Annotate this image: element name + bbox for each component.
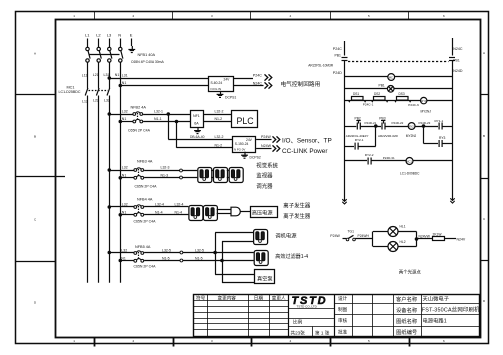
svg-text:L32-4: L32-4	[155, 203, 164, 207]
svg-text:D: D	[483, 299, 486, 303]
svg-text:DS3: DS3	[399, 92, 405, 96]
svg-text:PB1: PB1	[379, 84, 385, 88]
svg-text:4: 4	[290, 339, 292, 343]
svg-text:批准: 批准	[338, 328, 348, 335]
svg-text:HL2: HL2	[400, 240, 406, 244]
svg-text:PB3: PB3	[379, 117, 385, 121]
svg-text:5: 5	[368, 14, 370, 18]
svg-text:C65N 2P C4A: C65N 2P C4A	[134, 220, 157, 224]
svg-text:DS2: DS2	[374, 92, 380, 96]
svg-text:N1-4: N1-4	[175, 210, 183, 214]
svg-text:1: 1	[73, 339, 75, 343]
svg-text:RY3: RY3	[439, 136, 446, 140]
svg-text:第 1 张: 第 1 张	[315, 329, 330, 336]
svg-text:24V: 24V	[246, 138, 253, 142]
svg-text:C65N 2P C4A: C65N 2P C4A	[135, 185, 158, 189]
svg-text:24V: 24V	[224, 77, 231, 81]
svg-text:DCPS2: DCPS2	[250, 156, 261, 160]
svg-text:CC-LINK Power: CC-LINK Power	[282, 148, 328, 155]
svg-text:L12: L12	[82, 100, 88, 104]
svg-text:RY2-2: RY2-2	[365, 153, 374, 157]
svg-text:监视器: 监视器	[256, 172, 273, 180]
svg-text:E: E	[130, 33, 133, 38]
svg-text:D: D	[34, 301, 37, 305]
svg-text:TSTD CO.,LTD: TSTD CO.,LTD	[297, 305, 318, 309]
svg-text:图纸名称: 图纸名称	[396, 317, 418, 325]
svg-text:P24C-1: P24C-1	[363, 103, 374, 107]
svg-text:DB-6A-40: DB-6A-40	[190, 135, 205, 139]
svg-text:N24V: N24V	[457, 238, 466, 242]
svg-text:LC1-D09BDC: LC1-D09BDC	[400, 172, 420, 176]
svg-text:调机电源: 调机电源	[275, 232, 297, 240]
svg-text:P24C: P24C	[333, 47, 342, 51]
svg-text:共23张: 共23张	[291, 329, 306, 336]
svg-text:3: 3	[211, 14, 213, 18]
svg-text:B: B	[483, 134, 485, 138]
svg-text:P24D-31: P24D-31	[383, 156, 395, 160]
svg-text:N24C: N24C	[453, 47, 463, 51]
svg-text:6A: 6A	[194, 122, 199, 126]
svg-text:离子发生器: 离子发生器	[283, 212, 311, 220]
svg-text:L32-5: L32-5	[195, 249, 204, 253]
svg-text:NFB3 4A: NFB3 4A	[137, 160, 153, 164]
svg-text:S-60-24: S-60-24	[211, 81, 223, 85]
svg-text:I/O、Sensor、TP: I/O、Sensor、TP	[282, 137, 332, 144]
svg-text:电源电路1: 电源电路1	[423, 317, 447, 325]
svg-text:电气控制回路用: 电气控制回路用	[281, 80, 321, 88]
svg-text:L32-2: L32-2	[215, 135, 224, 139]
svg-text:P24W: P24W	[330, 234, 340, 238]
svg-text:2: 2	[133, 339, 135, 343]
svg-text:DCPS1: DCPS1	[225, 96, 236, 100]
svg-text:HL1: HL1	[400, 225, 406, 229]
svg-text:AR22F5L-10M3R: AR22F5L-10M3R	[308, 64, 334, 68]
svg-text:4: 4	[290, 14, 292, 18]
svg-text:MC1: MC1	[406, 159, 412, 163]
svg-text:AR22V2R-02R: AR22V2R-02R	[378, 134, 399, 138]
svg-text:NFB2 4A: NFB2 4A	[131, 106, 147, 110]
svg-text:N1-3: N1-3	[161, 173, 169, 177]
svg-text:DS1: DS1	[353, 92, 359, 96]
svg-text:PLC: PLC	[237, 116, 255, 126]
svg-text:N24D: N24D	[453, 69, 463, 73]
svg-text:LC1-D25BDC: LC1-D25BDC	[59, 90, 81, 94]
svg-text:RY2: RY2	[409, 124, 415, 128]
svg-text:B: B	[34, 135, 36, 139]
svg-text:N1: N1	[122, 210, 127, 214]
svg-text:A: A	[483, 51, 485, 55]
svg-text:N24VW: N24VW	[419, 234, 431, 238]
svg-text:MY2NJ: MY2NJ	[421, 110, 432, 114]
svg-text:2: 2	[133, 14, 135, 18]
svg-text:制图: 制图	[338, 306, 348, 313]
svg-text:MC: MC	[389, 75, 393, 79]
svg-text:L32: L32	[122, 110, 128, 114]
svg-text:L32-4: L32-4	[175, 203, 184, 207]
svg-text:设备名称: 设备名称	[396, 306, 418, 314]
svg-text:1: 1	[73, 14, 75, 18]
svg-text:6: 6	[443, 339, 445, 343]
svg-text:P24D: P24D	[333, 71, 342, 75]
svg-text:RY1: RY1	[421, 99, 427, 103]
svg-text:N1: N1	[122, 117, 127, 121]
svg-text:高效过滤器1-4: 高效过滤器1-4	[275, 253, 308, 260]
svg-text:C: C	[34, 218, 37, 222]
svg-text:N1-2: N1-2	[215, 144, 223, 148]
svg-text:L32-2: L32-2	[215, 110, 224, 114]
svg-text:C65N 2P C4A: C65N 2P C4A	[128, 129, 151, 133]
svg-text:P24D-22: P24D-22	[392, 121, 404, 125]
svg-text:N24W: N24W	[261, 144, 272, 148]
svg-text:N24C: N24C	[253, 82, 263, 86]
svg-text:调光器: 调光器	[256, 182, 273, 190]
svg-text:L31: L31	[104, 73, 110, 77]
svg-text:NFB4 4A: NFB4 4A	[137, 198, 153, 202]
svg-text:L32-3: L32-3	[161, 166, 170, 170]
svg-text:C: C	[483, 217, 486, 221]
svg-text:L3: L3	[107, 33, 112, 38]
svg-text:RY2-1: RY2-1	[355, 138, 364, 142]
svg-text:NFB1 40A: NFB1 40A	[138, 53, 156, 57]
svg-text:S-150-24: S-150-24	[235, 142, 249, 146]
svg-text:L2: L2	[96, 33, 101, 38]
svg-text:N1: N1	[115, 73, 120, 77]
svg-text:3: 3	[211, 339, 213, 343]
svg-text:N1: N1	[121, 256, 126, 260]
svg-text:两个光源点: 两个光源点	[399, 269, 422, 276]
svg-text:L32: L32	[122, 166, 128, 170]
svg-text:N1: N1	[122, 173, 127, 177]
svg-text:P24WH: P24WH	[358, 234, 370, 238]
svg-text:PB2: PB2	[355, 117, 361, 121]
svg-text:L22: L22	[93, 99, 99, 103]
svg-text:P24W: P24W	[261, 135, 271, 139]
svg-text:FST-350CA丝网印刷机: FST-350CA丝网印刷机	[422, 306, 480, 314]
svg-text:N1-1: N1-1	[154, 117, 162, 121]
svg-text:天山微电子: 天山微电子	[423, 295, 450, 303]
svg-text:N1-5: N1-5	[195, 256, 203, 260]
svg-text:N1-2: N1-2	[215, 117, 223, 121]
svg-text:PB1: PB1	[335, 53, 342, 57]
svg-text:P24D-21: P24D-21	[365, 121, 377, 125]
svg-text:NFB5 4A: NFB5 4A	[135, 245, 151, 249]
svg-text:视觉系统: 视觉系统	[256, 162, 278, 170]
svg-text:审核: 审核	[338, 317, 348, 324]
svg-text:L32-5: L32-5	[162, 249, 171, 253]
svg-text:2K1W: 2K1W	[433, 232, 443, 236]
svg-text:设计: 设计	[338, 295, 348, 302]
svg-text:比例: 比例	[293, 319, 303, 326]
svg-text:L31: L31	[122, 74, 128, 78]
svg-text:N1-4: N1-4	[155, 210, 163, 214]
svg-text:C65N 2P C4A: C65N 2P C4A	[134, 265, 157, 269]
svg-text:L21: L21	[93, 73, 99, 77]
svg-text:离子发生器: 离子发生器	[283, 202, 311, 210]
svg-text:MC1: MC1	[67, 86, 75, 90]
svg-text:L32: L32	[121, 249, 127, 253]
svg-text:N: N	[118, 33, 121, 38]
svg-text:N1-5: N1-5	[162, 256, 170, 260]
svg-text:L32-1: L32-1	[154, 110, 163, 114]
svg-text:N FG 0V: N FG 0V	[234, 148, 245, 152]
svg-text:L32: L32	[122, 203, 128, 207]
svg-text:MY2NJ: MY2NJ	[406, 134, 417, 138]
svg-text:NF1: NF1	[193, 114, 200, 118]
svg-text:真空泵: 真空泵	[257, 274, 273, 282]
svg-text:P24C-6: P24C-6	[408, 103, 419, 107]
svg-text:变更人: 变更人	[272, 294, 286, 301]
svg-text:N1: N1	[122, 81, 127, 85]
svg-text:6: 6	[443, 14, 445, 18]
svg-text:变更内容: 变更内容	[218, 294, 237, 301]
svg-text:L32: L32	[104, 99, 110, 103]
svg-text:P24C: P24C	[253, 74, 262, 78]
svg-text:高压电源: 高压电源	[252, 208, 274, 216]
svg-text:符号: 符号	[196, 294, 206, 301]
svg-text:N FG IN: N FG IN	[211, 87, 222, 91]
svg-text:TG1: TG1	[348, 229, 355, 233]
svg-text:A: A	[34, 52, 36, 56]
svg-text:PB1: PB1	[453, 58, 460, 62]
svg-text:L1: L1	[85, 33, 90, 38]
svg-text:L11: L11	[82, 74, 88, 78]
svg-text:客户名称: 客户名称	[396, 295, 418, 303]
svg-text:图纸编号: 图纸编号	[396, 328, 417, 336]
svg-text:5: 5	[368, 339, 370, 343]
svg-text:P24D-23: P24D-23	[419, 121, 431, 125]
svg-text:C65N 4P C40A 30mA: C65N 4P C40A 30mA	[131, 60, 164, 64]
svg-text:RY1-1: RY1-1	[435, 119, 444, 123]
